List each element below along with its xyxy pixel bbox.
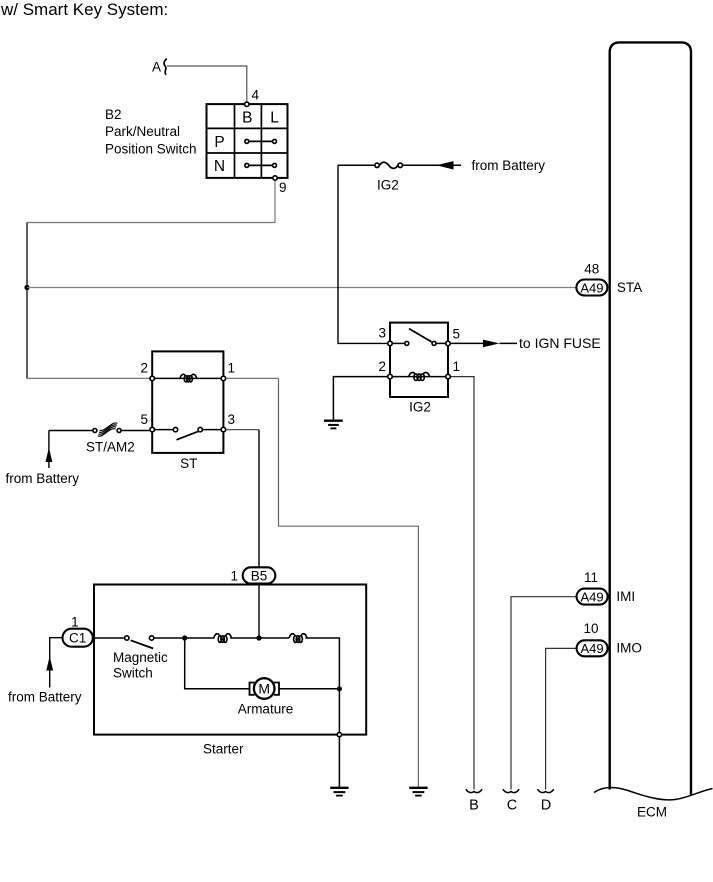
svg-text:B5: B5: [251, 568, 268, 583]
branch to armature: [185, 638, 249, 689]
pin 9: [273, 176, 277, 180]
wire ST pin1 right and down to ground: [226, 377, 278, 379]
ground (IG2 relay): [324, 421, 343, 429]
svg-text:Starter: Starter: [203, 742, 244, 757]
break squiggle B: [466, 789, 482, 792]
relay ST row wires: [152, 377, 223, 379]
magnetic switch: [94, 637, 124, 639]
svg-text:ST/AM2: ST/AM2: [86, 440, 135, 455]
relay IG2 coil: [409, 372, 430, 380]
ECM torn bottom edge: [594, 787, 713, 799]
wire A to pin 4: [167, 66, 247, 102]
svg-text:11: 11: [584, 570, 598, 585]
wire fuse to IG2 relay pin3: [338, 165, 387, 343]
svg-text:L: L: [270, 110, 279, 127]
svg-text:IG2: IG2: [377, 178, 399, 193]
svg-text:IG2: IG2: [409, 400, 431, 415]
wire C1 to from-battery: [50, 638, 63, 688]
svg-text:from Battery: from Battery: [6, 471, 80, 486]
connector B5: [243, 567, 276, 583]
svg-text:to IGN FUSE: to IGN FUSE: [519, 335, 601, 351]
svg-text:from Battery: from Battery: [8, 690, 82, 705]
wire IMI: [511, 597, 577, 790]
svg-text:3: 3: [228, 412, 236, 427]
svg-text:Magnetic: Magnetic: [113, 650, 168, 665]
svg-text:IMI: IMI: [616, 589, 635, 604]
wire IG2 pin1 to B line: [451, 377, 474, 790]
relay IG2 box: [390, 323, 448, 397]
connector C1: [63, 629, 93, 647]
svg-text:w/ Smart Key System:: w/ Smart Key System:: [0, 0, 168, 19]
starter internal wiring: [182, 635, 187, 640]
wire B5 into starter: [258, 584, 260, 638]
svg-text:1: 1: [71, 614, 79, 629]
relay IG2 pins: [388, 341, 393, 346]
armature M: [250, 678, 280, 699]
ground (starter): [330, 788, 348, 796]
from battery arrow (ST): [48, 431, 50, 469]
svg-text:ECM: ECM: [637, 805, 667, 820]
relay ST coil: [180, 374, 197, 382]
svg-text:from Battery: from Battery: [472, 158, 546, 173]
svg-text:B: B: [242, 110, 252, 127]
node junction dot: [24, 285, 29, 290]
arrow from battery (pointing left): [436, 161, 453, 169]
relay IG2 row wires: [390, 342, 404, 344]
N row contacts: [249, 164, 273, 166]
svg-text:D: D: [541, 798, 551, 814]
svg-text:Park/Neutral: Park/Neutral: [105, 124, 180, 139]
field coil 1: [214, 634, 232, 643]
svg-text:ST: ST: [180, 456, 197, 471]
fuse IG2: [338, 164, 375, 166]
svg-text:1: 1: [228, 361, 236, 376]
wire junction to ST pin2: [26, 288, 28, 379]
wire to starter ground: [338, 737, 340, 787]
wire vertical to junction: [26, 223, 28, 288]
relay IG2 switch blade: [409, 329, 432, 342]
svg-text:5: 5: [140, 412, 148, 427]
relay ST switch contacts: [173, 427, 177, 431]
svg-text:B2: B2: [105, 107, 122, 122]
relay IG2 contacts: [405, 341, 409, 345]
node A break squiggle: [164, 59, 167, 75]
wire STA: [27, 287, 576, 289]
wire pin9 down-left to STA column: [27, 181, 275, 223]
svg-text:10: 10: [583, 621, 598, 636]
svg-text:M: M: [258, 681, 270, 697]
break squiggle D: [537, 789, 553, 792]
wire IG2 pin2 to ground: [333, 377, 387, 420]
break squiggle C: [503, 789, 519, 792]
starter box: [94, 585, 366, 735]
wire ST pin3 to B5: [226, 429, 259, 431]
park/neutral position switch B2 table: [207, 104, 288, 178]
down to box edge circle: [338, 689, 340, 733]
relay ST pins: [150, 376, 155, 381]
P row contacts: [249, 140, 273, 142]
svg-text:3: 3: [378, 326, 386, 341]
svg-text:1: 1: [453, 359, 461, 374]
svg-text:A49: A49: [581, 589, 604, 604]
svg-text:STA: STA: [617, 280, 642, 295]
ECM box: [610, 42, 691, 795]
relay ST switch blade: [177, 431, 199, 440]
svg-text:4: 4: [252, 88, 260, 103]
svg-text:A: A: [152, 60, 161, 75]
svg-text:A49: A49: [581, 641, 604, 656]
armature to right junction: [279, 688, 339, 690]
svg-text:A49: A49: [580, 280, 603, 295]
fusible link ST/AM2: [49, 430, 93, 432]
svg-text:B: B: [469, 798, 479, 814]
svg-text:N: N: [214, 158, 225, 175]
wire IMO: [546, 648, 577, 789]
svg-text:48: 48: [584, 262, 599, 277]
svg-text:Armature: Armature: [238, 702, 294, 717]
svg-text:C1: C1: [69, 631, 86, 646]
svg-text:5: 5: [453, 327, 461, 342]
svg-text:IMO: IMO: [616, 641, 642, 656]
svg-text:2: 2: [140, 361, 148, 376]
svg-text:Position Switch: Position Switch: [105, 142, 197, 157]
pin 4: [245, 102, 249, 106]
svg-text:Switch: Switch: [113, 666, 153, 681]
svg-text:P: P: [214, 134, 224, 151]
wire to IGN FUSE with arrow: [451, 342, 483, 344]
svg-text:9: 9: [279, 180, 287, 195]
relay ST box: [152, 351, 223, 453]
field coil 2: [289, 634, 307, 643]
svg-text:2: 2: [378, 359, 386, 374]
svg-text:C: C: [507, 798, 517, 814]
ground (right): [409, 788, 427, 796]
svg-text:1: 1: [230, 569, 238, 584]
